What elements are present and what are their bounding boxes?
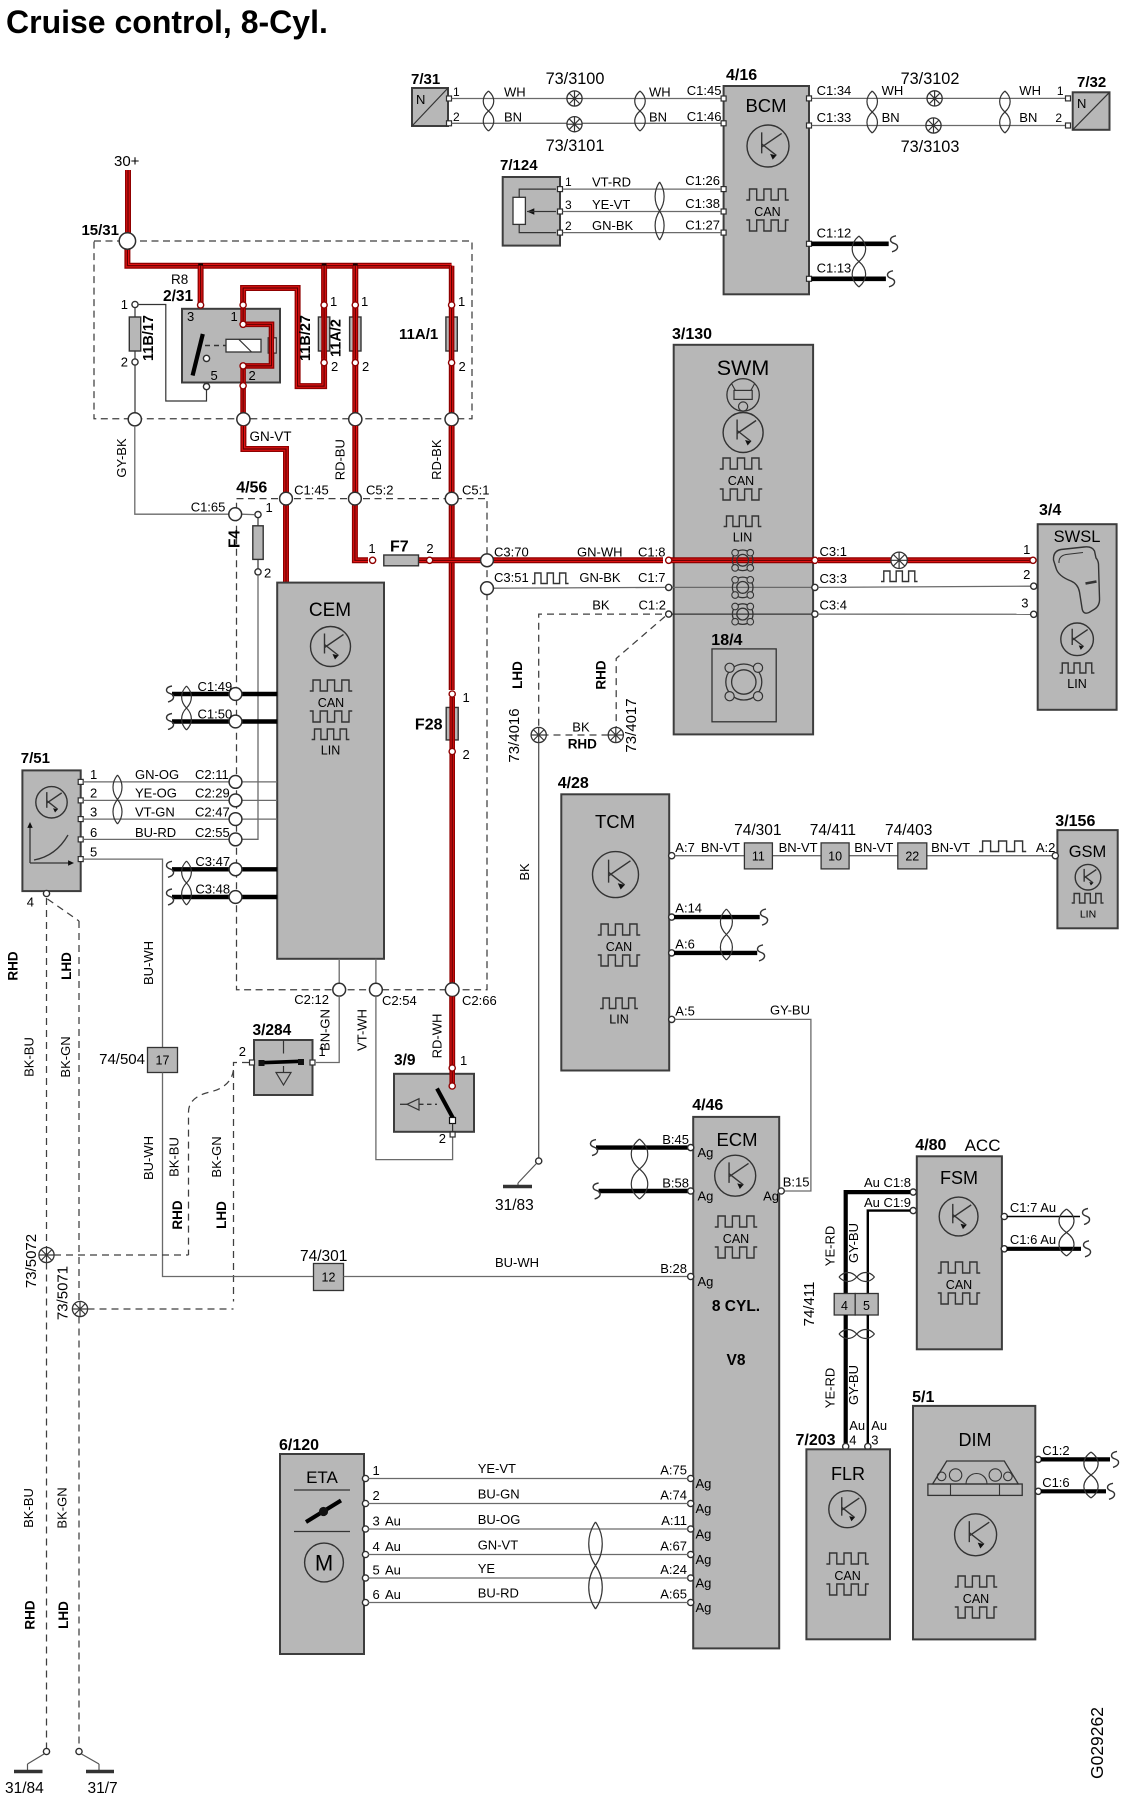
svg-text:ETA: ETA (306, 1468, 338, 1487)
svg-text:CAN: CAN (754, 205, 780, 219)
pin B:45 (688, 1145, 694, 1151)
svg-text:C1:45: C1:45 (294, 483, 329, 498)
svg-text:74/411: 74/411 (801, 1282, 818, 1327)
svg-text:C1:27: C1:27 (685, 218, 720, 233)
svg-text:5: 5 (863, 1299, 870, 1313)
node C1:65 (229, 508, 242, 521)
svg-text:C2:66: C2:66 (462, 993, 497, 1008)
svg-text:C3:3: C3:3 (820, 571, 847, 586)
svg-text:C3:70: C3:70 (494, 545, 529, 560)
svg-text:BN-VT: BN-VT (779, 840, 818, 855)
wire red SWM to SWSL (818, 557, 1031, 563)
svg-text:73/5071: 73/5071 (55, 1266, 72, 1320)
svg-text:2: 2 (90, 786, 97, 801)
component 18/4 horn (711, 632, 776, 722)
svg-text:6: 6 (373, 1587, 380, 1602)
wavemark C3:51 (532, 573, 569, 584)
svg-text:C3:47: C3:47 (195, 854, 230, 869)
cut mark C1:49 (167, 686, 174, 702)
svg-text:VT-WH: VT-WH (354, 1009, 369, 1051)
svg-text:LIN: LIN (321, 744, 340, 758)
wire GY-BK down (135, 426, 229, 514)
cut mark B:58 (593, 1183, 600, 1199)
svg-text:N: N (416, 92, 425, 107)
wire GN-BK C3:51 to SWM (493, 586, 665, 589)
svg-text:BU-WH: BU-WH (141, 1136, 156, 1180)
svg-text:2: 2 (331, 359, 338, 374)
component ETA 6/120 (279, 1437, 369, 1654)
svg-text:7/32: 7/32 (1077, 74, 1106, 91)
wire ETA A:24 (368, 1577, 688, 1579)
flange C1:7 (732, 577, 753, 598)
svg-text:RHD: RHD (6, 951, 21, 980)
svg-text:BK: BK (592, 598, 610, 613)
ECU CEM (277, 583, 384, 959)
svg-text:BN: BN (649, 110, 667, 125)
svg-text:F28: F28 (415, 717, 443, 734)
svg-text:GN-VT: GN-VT (250, 429, 292, 444)
pin SWM C3:4 (812, 611, 818, 617)
svg-text:GN-WH: GN-WH (577, 545, 623, 560)
svg-text:LHD: LHD (59, 952, 74, 980)
connector 73/3102 (927, 91, 942, 106)
svg-text:C1:6 Au: C1:6 Au (1010, 1232, 1056, 1247)
junction 11A/2 branch (353, 263, 358, 268)
svg-text:1: 1 (1023, 542, 1030, 557)
svg-text:C1:7: C1:7 (638, 570, 665, 585)
svg-text:4: 4 (373, 1539, 380, 1554)
wire CAN A:14 (674, 915, 760, 919)
svg-text:VT-RD: VT-RD (592, 175, 631, 190)
ground 31/84 (43, 1748, 49, 1754)
wire CAN C1:49 (172, 692, 277, 696)
pin SWM C1:8 (666, 557, 672, 563)
ECU TCM 4/28 (558, 775, 675, 1071)
dashed RHD from pin4 (46, 898, 48, 1255)
svg-text:C1:46: C1:46 (687, 109, 722, 124)
wire relay pin5 to 11B/17 (139, 305, 207, 402)
cut mark DIM C1:2 (1112, 1451, 1119, 1467)
svg-text:74/504: 74/504 (99, 1051, 145, 1068)
svg-text:RHD: RHD (23, 1600, 38, 1629)
wire CAN C3:48 (172, 895, 277, 899)
relay pin circles (198, 302, 204, 308)
svg-text:WH: WH (649, 85, 671, 100)
connector 73/5071 (72, 1301, 87, 1316)
node C2:47 (229, 813, 242, 826)
svg-text:GN-BK: GN-BK (592, 218, 634, 233)
svg-text:CAN: CAN (606, 940, 632, 954)
flange C1:8 (732, 550, 753, 571)
svg-text:73/4016: 73/4016 (506, 708, 523, 762)
wire GY-BU lower (867, 1315, 869, 1444)
svg-text:4/28: 4/28 (558, 775, 589, 792)
svg-text:Au: Au (385, 1539, 401, 1554)
svg-text:BU-GN: BU-GN (478, 1487, 520, 1502)
svg-text:3: 3 (1021, 596, 1028, 611)
wire BK to ground 31/83 (538, 743, 540, 1158)
svg-text:31/7: 31/7 (88, 1780, 118, 1797)
ECU SWSL 3/4 (1021, 502, 1116, 710)
svg-text:C1:6: C1:6 (1042, 1475, 1069, 1490)
wire red relay internal loop (243, 308, 271, 419)
node C1:50 (229, 715, 242, 728)
wire BU-WH 74/504 down (163, 1073, 314, 1277)
wire BU-WH to ECM (344, 1276, 689, 1278)
fuse F4 (227, 500, 273, 581)
wire red C5:1 to F28 (449, 505, 455, 690)
svg-text:C5:2: C5:2 (366, 483, 393, 498)
svg-text:11B/17: 11B/17 (141, 315, 157, 361)
svg-text:1: 1 (90, 767, 97, 782)
wire WH BCM to 7/32 (812, 97, 1067, 99)
dashed 73/5071 right (88, 1308, 234, 1310)
wire BU-WH from pin5 (83, 859, 163, 1047)
component 7/124 pedal sensor (500, 157, 572, 246)
cut mark C1:13 (888, 271, 895, 287)
svg-text:Ag: Ag (698, 1189, 714, 1204)
svg-text:BN-VT: BN-VT (701, 840, 740, 855)
connector 74/301-12 (314, 1264, 344, 1291)
svg-text:2: 2 (565, 219, 572, 233)
svg-text:74/301: 74/301 (300, 1248, 347, 1265)
svg-text:C1:33: C1:33 (817, 110, 852, 125)
svg-text:C1:7 Au: C1:7 Au (1010, 1200, 1056, 1215)
twisted pair CAN stubs (852, 236, 866, 287)
svg-text:4/16: 4/16 (726, 67, 757, 84)
svg-text:RHD: RHD (170, 1200, 185, 1229)
dashed BK LHD from C1:2 (539, 614, 662, 727)
svg-text:RD-BU: RD-BU (333, 439, 348, 480)
svg-text:CAN: CAN (963, 1592, 989, 1606)
svg-text:LIN: LIN (1067, 677, 1086, 691)
svg-text:2: 2 (463, 747, 470, 762)
svg-text:C1:2: C1:2 (1042, 1443, 1069, 1458)
svg-text:Ag: Ag (698, 1145, 714, 1160)
svg-text:BN: BN (1019, 110, 1037, 125)
svg-text:CAN: CAN (723, 1232, 749, 1246)
twisted pair before BCM (635, 91, 646, 131)
svg-text:ACC: ACC (965, 1136, 1001, 1155)
wire VT-GN (83, 818, 277, 820)
svg-text:YE-VT: YE-VT (592, 197, 630, 212)
wire red F7 to SWM (418, 557, 663, 563)
svg-text:A:24: A:24 (660, 1562, 687, 1577)
wire CAN C1:50 (172, 719, 277, 723)
svg-text:7/203: 7/203 (796, 1432, 836, 1449)
svg-text:CAN: CAN (834, 1569, 860, 1583)
twisted pair 7/124 wires (655, 182, 664, 240)
wire BK through SWM (667, 613, 816, 615)
fuse 11A/2 (329, 294, 370, 374)
svg-text:C1:8: C1:8 (638, 545, 665, 560)
svg-text:LIN: LIN (1080, 909, 1096, 921)
svg-text:11A/1: 11A/1 (399, 326, 438, 343)
wire C3:3 to SWSL (818, 586, 1031, 587)
svg-text:Ag: Ag (696, 1527, 712, 1542)
svg-text:A:5: A:5 (675, 1004, 695, 1019)
wire ETA A:65 (368, 1602, 688, 1604)
node C1:49 (229, 688, 242, 701)
wire GN-VT red (243, 426, 286, 493)
ECU FSM 4/80 (910, 1136, 1007, 1349)
wire WH 7/31 to BCM C1:45 (452, 98, 723, 100)
svg-text:YE-OG: YE-OG (135, 786, 177, 801)
connector x on red (891, 552, 907, 568)
svg-text:2: 2 (121, 355, 128, 370)
wire red RD-WH (449, 997, 455, 1067)
pin A:24 (688, 1575, 694, 1581)
wire CAN C3:47 (172, 867, 277, 871)
svg-text:Au: Au (849, 1418, 865, 1433)
svg-text:1: 1 (453, 85, 460, 99)
node 15/31 (119, 233, 135, 249)
svg-text:Ag: Ag (698, 1274, 714, 1289)
svg-text:31/84: 31/84 (5, 1780, 44, 1797)
svg-text:10: 10 (828, 850, 842, 864)
wire RD-BK red (449, 426, 455, 493)
svg-text:YE-RD: YE-RD (823, 1368, 838, 1408)
svg-text:2: 2 (249, 368, 256, 383)
svg-text:11B/27: 11B/27 (298, 315, 314, 361)
ECU DIM 5/1 (912, 1389, 1041, 1639)
node C3:51 (481, 582, 494, 595)
connector 73/3100 (567, 91, 582, 106)
svg-text:CEM: CEM (309, 600, 351, 621)
svg-text:SWSL: SWSL (1054, 528, 1101, 546)
svg-text:GN-OG: GN-OG (135, 767, 179, 782)
svg-text:A:7: A:7 (675, 840, 695, 855)
pin B:28 (688, 1273, 694, 1279)
cut mark C3:47 (167, 861, 174, 877)
svg-text:F7: F7 (390, 539, 409, 556)
wire red through SWM (668, 557, 816, 563)
twisted pair YE-RD/GY-BU upper (839, 1273, 875, 1282)
svg-text:BN-VT: BN-VT (931, 840, 970, 855)
svg-text:ECM: ECM (716, 1129, 757, 1150)
svg-text:5: 5 (211, 368, 218, 383)
svg-text:73/3101: 73/3101 (546, 137, 605, 155)
svg-text:BK: BK (517, 863, 532, 881)
connector 74/301-11 (744, 843, 772, 869)
relay switch blade (193, 334, 203, 376)
svg-text:RD-WH: RD-WH (430, 1014, 445, 1059)
svg-text:18/4: 18/4 (711, 632, 742, 649)
svg-text:A:2: A:2 (1036, 840, 1056, 855)
pin B:58 (688, 1188, 694, 1194)
svg-text:5/1: 5/1 (912, 1389, 934, 1406)
pin B:15 (778, 1188, 784, 1194)
svg-text:YE-VT: YE-VT (478, 1461, 516, 1476)
connector 74/411-10 (821, 843, 849, 869)
svg-text:LHD: LHD (56, 1601, 71, 1629)
svg-text:A:65: A:65 (660, 1587, 687, 1602)
svg-text:2: 2 (239, 1044, 246, 1059)
node C2:12 (333, 983, 346, 996)
svg-text:YE: YE (478, 1561, 496, 1576)
svg-text:RD-BK: RD-BK (429, 439, 444, 480)
wire VT-RD 7/124 to BCM (563, 188, 723, 190)
wire BN BCM to 7/32 (812, 125, 1067, 127)
twisted pair B:45/B:58 (631, 1139, 648, 1199)
svg-text:4: 4 (841, 1299, 848, 1313)
svg-text:DIM: DIM (959, 1430, 992, 1450)
svg-text:BK-GN: BK-GN (55, 1487, 70, 1528)
svg-text:WH: WH (1019, 83, 1041, 98)
wire red C1:45 to CEM (283, 505, 289, 583)
svg-text:C2:11: C2:11 (195, 767, 229, 782)
svg-text:7/124: 7/124 (500, 157, 538, 174)
pin A:11 (688, 1526, 694, 1532)
wire red 11B/27 drop (321, 266, 327, 362)
cut mark C1:12 (891, 236, 898, 252)
wire C2:54 stub (375, 959, 377, 985)
twisted pair A:14/A:6 (720, 909, 732, 960)
pin SWM C1:2 (666, 611, 672, 617)
svg-text:4: 4 (849, 1433, 856, 1448)
svg-text:Ag: Ag (696, 1576, 712, 1591)
node C2:29 (229, 794, 242, 807)
ground 31/83 (536, 1158, 542, 1164)
wire CAN C1:13 (812, 276, 886, 281)
svg-text:1: 1 (361, 294, 368, 309)
fuse 11B/27 (298, 294, 338, 374)
svg-text:Au C1:9: Au C1:9 (864, 1195, 911, 1210)
node C2:66 (445, 983, 459, 997)
wire red 11A/2 drop (352, 266, 358, 415)
svg-text:C3:48: C3:48 (195, 882, 230, 897)
svg-text:C3:1: C3:1 (820, 544, 847, 559)
wire C1:65 to F4 (242, 513, 255, 515)
svg-text:Au C1:8: Au C1:8 (864, 1175, 911, 1190)
junction relay branch (198, 263, 203, 268)
flange C1:2 (732, 604, 753, 625)
pin A:74 (688, 1500, 694, 1506)
wire CAN A:6 (674, 951, 757, 955)
svg-text:C3:51: C3:51 (494, 570, 529, 585)
svg-text:2: 2 (453, 110, 460, 124)
svg-text:2: 2 (264, 566, 271, 581)
wire YE-VT 7/124 to BCM (563, 211, 723, 213)
wire GN-BK 7/124 to BCM (563, 232, 723, 234)
pin FLR 3 (865, 1443, 871, 1449)
svg-text:73/5072: 73/5072 (23, 1234, 40, 1288)
svg-text:6/120: 6/120 (279, 1437, 319, 1454)
wire 30+ feed (125, 170, 131, 236)
wire C3:4 to SWSL (818, 613, 1031, 615)
svg-text:4/80: 4/80 (915, 1137, 946, 1154)
svg-text:BK-GN: BK-GN (58, 1036, 73, 1077)
dashed LHD to ground (78, 1317, 80, 1750)
svg-text:FLR: FLR (831, 1464, 865, 1484)
wire BN 7/31 to BCM C1:46 (452, 122, 723, 124)
svg-text:1: 1 (121, 297, 128, 312)
dashed from 3/284 pin2 (234, 1063, 250, 1302)
wire C1:6 FSM (1007, 1247, 1082, 1251)
dashed BK RHD from C1:2 (616, 617, 665, 728)
component 7/31 connector box (411, 71, 460, 126)
wire F4 to C2:55 (242, 575, 258, 839)
dashed box 4/56 (237, 499, 488, 990)
svg-text:C1:65: C1:65 (191, 500, 226, 515)
svg-text:1: 1 (463, 690, 470, 705)
svg-text:C1:45: C1:45 (687, 83, 722, 98)
svg-text:V8: V8 (727, 1352, 746, 1369)
svg-text:GY-BU: GY-BU (770, 1003, 810, 1018)
svg-text:1: 1 (318, 1044, 325, 1059)
node GY-BK (128, 413, 141, 426)
svg-text:Cruise control, 8-Cyl.: Cruise control, 8-Cyl. (6, 4, 328, 40)
node C3:70 (481, 554, 494, 567)
svg-text:3/156: 3/156 (1055, 813, 1095, 830)
svg-text:GN-BK: GN-BK (579, 570, 621, 585)
svg-text:BU-RD: BU-RD (478, 1586, 519, 1601)
node C1:45 (280, 492, 293, 505)
twisted pair lower (839, 1330, 875, 1339)
fuse F28 (415, 690, 470, 985)
wire DIM C1:6 (1041, 1489, 1106, 1493)
svg-text:N: N (1077, 96, 1086, 111)
ground 31/7 (76, 1748, 82, 1754)
svg-text:A:11: A:11 (661, 1513, 687, 1528)
wire red relay pin1 loop (243, 288, 324, 386)
svg-text:RHD: RHD (568, 737, 597, 752)
svg-text:TCM: TCM (595, 811, 635, 832)
connector 73/3101 (567, 117, 582, 132)
wire CAN B:45 (596, 1145, 691, 1149)
svg-text:A:74: A:74 (660, 1488, 687, 1503)
dashed box 15/31 (94, 241, 472, 419)
svg-text:3: 3 (871, 1433, 878, 1448)
svg-text:3/9: 3/9 (394, 1052, 416, 1069)
wire BU-RD 7/51 (83, 838, 258, 840)
svg-text:C2:55: C2:55 (195, 825, 230, 840)
wire ETA A:67 (368, 1554, 688, 1556)
fuse 11A/1 (399, 266, 466, 415)
node C2:55 (229, 833, 242, 846)
wire GN-BK through SWM (667, 586, 816, 588)
dashed LHD branch diagonal (48, 899, 80, 921)
pin FLR 4 (843, 1443, 849, 1449)
svg-text:LHD: LHD (214, 1201, 229, 1229)
svg-text:G029262: G029262 (1087, 1707, 1107, 1779)
svg-text:GY-BU: GY-BU (846, 1365, 861, 1405)
relay contact box (268, 338, 276, 353)
svg-text:2: 2 (439, 1131, 446, 1146)
svg-text:BCM: BCM (745, 95, 786, 116)
component 3/284 switch (239, 1022, 326, 1095)
node C5:1 (445, 492, 458, 505)
svg-text:BU-WH: BU-WH (141, 941, 156, 985)
svg-text:2: 2 (373, 1488, 380, 1503)
svg-text:B:15: B:15 (783, 1175, 810, 1190)
svg-text:74/411: 74/411 (810, 822, 856, 839)
cut mark C1:7 (1083, 1209, 1090, 1225)
svg-text:17: 17 (156, 1054, 170, 1068)
pin A:75 (688, 1475, 694, 1481)
wire CAN B:58 (599, 1189, 691, 1193)
component 3/9 switch (394, 1052, 474, 1146)
junction 11B/27 branch (322, 263, 327, 268)
svg-text:3/130: 3/130 (672, 326, 712, 343)
wavemark GSM (979, 841, 1026, 852)
svg-text:B:58: B:58 (662, 1176, 689, 1191)
wire YE-OG (83, 799, 277, 801)
svg-text:1: 1 (373, 1463, 380, 1478)
cut mark A:14 (761, 909, 768, 925)
wire DIM C1:2 (1041, 1457, 1110, 1461)
svg-text:1: 1 (565, 175, 572, 189)
